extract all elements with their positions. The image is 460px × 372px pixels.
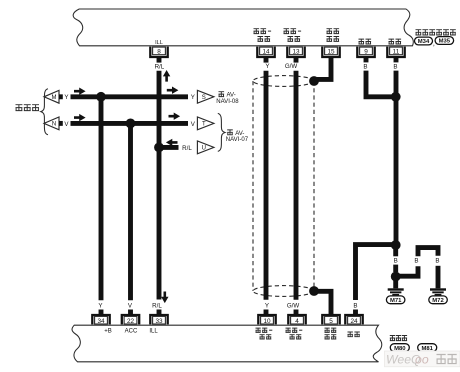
svg-text:Y: Y [64,94,68,101]
wire B from pin 9 [364,57,369,62]
svg-text:Y: Y [265,302,269,309]
svg-text:8: 8 [157,49,161,56]
svg-text:oo: oo [415,353,429,367]
svg-text:M71: M71 [390,298,402,304]
svg-text:ACC: ACC [125,328,138,334]
off-page connector U [197,141,214,154]
svg-text:33: 33 [155,318,163,325]
wire V to pin 22 [128,123,133,300]
connector pin 15 [322,47,339,57]
svg-text:B: B [435,258,439,265]
ground connector M71 oval [386,296,405,304]
connector pin 22 ACC [122,315,139,324]
connector pin 11 [387,47,404,57]
label 显示-导航 (pin 13) [284,28,290,34]
svg-text:NAVI-07: NAVI-07 [226,137,249,143]
watermark WeeQoo [385,351,460,367]
label 显示-导航 (pin 4) [286,328,291,333]
svg-text:N: N [52,122,56,128]
svg-text:S: S [202,95,206,101]
junction dot row1/Y [96,92,106,102]
connector pin 10 [258,315,275,324]
wire B pin15 to shield top [316,57,331,79]
label 导航-显示 (pin 10) [256,328,261,333]
wire V row 2 [59,121,63,126]
shield (dashed cylinder) [253,76,314,297]
unit name 导航控制单元 [416,29,422,35]
svg-text:M34: M34 [418,39,430,45]
svg-text:Y: Y [191,94,195,101]
ground symbol M72 [430,288,446,290]
wire G/W pin13 to pin4 [294,57,299,63]
arrow down near pin 33 [161,292,168,304]
display unit band (bottom) [72,325,382,362]
ground symbol M71 [388,288,404,290]
svg-text:B: B [363,64,367,71]
svg-text:14: 14 [262,49,270,56]
label 接地 (pin 9) [359,39,365,45]
connector pin 9 [357,47,374,57]
svg-text:22: 22 [127,318,135,325]
connector pin 33 ILL [150,315,167,324]
wire B to pin 24 [356,245,394,300]
svg-text:34: 34 [97,318,105,325]
wire shield bottom to pin 5 [314,291,331,315]
arrow on wire V (left) [74,114,86,121]
off-page connector M [44,90,59,103]
junction dot row2/V [126,119,136,129]
svg-text:T: T [202,122,206,128]
svg-text:B: B [414,258,418,265]
svg-text:U: U [202,146,206,152]
svg-text:10: 10 [263,318,271,325]
svg-text:AV-: AV- [235,131,244,137]
svg-text:R/L: R/L [182,145,192,152]
junction dot pin9/pin11 [391,92,401,102]
svg-text:ILL: ILL [149,328,158,334]
connector pin 13 [287,47,304,57]
off-page connector T [197,117,214,130]
junction dot above M71 [391,272,401,282]
text 至 AV-NAVI-07 [227,129,233,135]
ground connector M72 oval [429,296,448,304]
text 至 AV-NAVI-08 [219,91,225,97]
connector M81 oval [418,344,437,352]
wire B from pin 11 [394,57,399,62]
watermark 维库 [437,354,446,364]
wire B between junctions (label gap) [393,249,398,256]
label 总线接地 (pin 15) [327,28,333,34]
text 上一页 (previous page) [16,104,23,111]
arrow on wire Y (right) [167,87,179,94]
arrow on wire R/L (left-pointing) [166,139,178,146]
junction dot shield bottom [309,286,319,296]
connector pin 24 [345,315,362,324]
wire Y pin14 to pin10 [264,57,269,63]
svg-text:Y: Y [98,302,102,309]
brace for T and U [218,113,225,151]
junction dot row3/RL [154,143,164,153]
svg-text:M: M [52,95,57,101]
arrow up near pin 8 [163,70,170,82]
svg-text:R/L: R/L [155,64,165,71]
svg-text:11: 11 [393,49,400,56]
brace left of off-page connectors [41,89,48,135]
connector M34 oval [415,37,433,45]
svg-text:B: B [393,64,397,71]
wire Y row 1 [59,94,63,99]
svg-text:15: 15 [327,49,335,56]
connector pin 34 +B [92,315,109,324]
svg-text:4: 4 [295,318,299,325]
svg-text:B: B [353,302,357,309]
connector pin 5 [322,315,339,324]
svg-text:24: 24 [350,318,358,325]
junction dot main B split [391,240,401,250]
label 接地 (pin 24) [348,332,353,338]
wire stub to ground M71 [393,281,398,289]
svg-text:AV-: AV- [227,93,236,99]
unit name 显示器 [390,335,395,341]
wire Y to pin 34 [99,97,104,300]
arrow on wire V (right) [169,113,181,120]
connector M80 oval [390,344,409,352]
label 导航-显示 (pin 14) [254,28,260,34]
svg-text:ILL: ILL [155,40,163,46]
connector M35 oval [435,37,454,45]
connector pin 14 [257,47,274,57]
connector pin 8 ILL [150,47,167,57]
off-page connector N [44,117,59,130]
svg-text:13: 13 [292,49,300,56]
svg-text:B: B [394,258,398,265]
svg-text:G/W: G/W [287,302,300,309]
navigation control unit band (top) [73,9,413,46]
svg-text:R/L: R/L [152,302,162,309]
svg-text:G/W: G/W [285,63,298,70]
connector pin 4 [288,315,305,324]
svg-text:9: 9 [364,49,368,56]
label 接地 (pin 11) [389,39,395,45]
arrow on wire Y (left) [74,88,86,95]
wire R/L row 3 [161,145,179,150]
svg-text:Y: Y [265,63,269,70]
wire R/L pin8 to pin33 [157,57,162,63]
svg-text:,: , [433,41,435,48]
svg-text:M35: M35 [439,39,451,45]
wire B branch to M72 [396,266,418,276]
label 总线接地 (pin 5) [325,328,330,333]
junction dot shield top [309,76,319,86]
off-page connector S [197,90,214,103]
svg-text:+B: +B [104,328,112,334]
svg-text:M72: M72 [432,298,444,304]
svg-text:NAVI-08: NAVI-08 [216,99,239,105]
svg-text:5: 5 [329,318,333,325]
